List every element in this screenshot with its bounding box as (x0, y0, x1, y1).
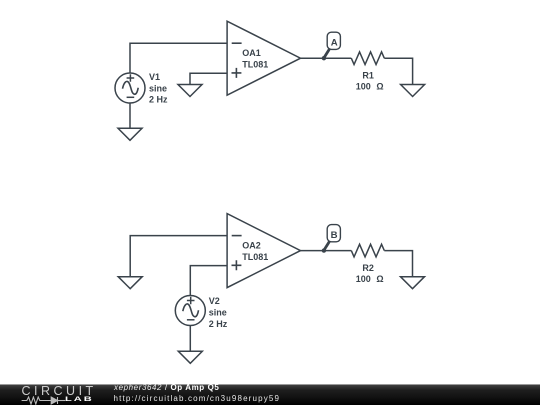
svg-text:2 Hz: 2 Hz (209, 319, 228, 329)
wire OA2 output to resistor R2 (301, 250, 352, 252)
op-amp OA1 TL081 (227, 21, 300, 95)
wire OA2 plus input to V2 top (190, 266, 227, 296)
op-amp OA1 body (227, 21, 300, 95)
ground right of R2 (401, 277, 425, 289)
footer text (114, 383, 219, 392)
svg-text:Ω: Ω (376, 274, 383, 284)
node A pointer (324, 49, 330, 58)
op-amp OA2 inverting pin mark (232, 235, 242, 237)
footer bar (0, 384, 540, 405)
V2 minus mark (187, 319, 195, 321)
op-amp OA2 TL081 (227, 214, 300, 288)
node B pointer (324, 241, 330, 250)
wire minus-input net top: V1 top to OA1 inverting input (130, 43, 227, 73)
wire V1 bottom to ground (129, 103, 131, 129)
svg-text:OA2: OA2 (242, 241, 261, 251)
wire R1 to right ground (384, 58, 412, 84)
svg-text:R1: R1 (362, 71, 374, 81)
voltage source V2 (175, 296, 205, 326)
wire minus-input net bottom: left of OA2 down to ground (130, 236, 227, 277)
svg-text:Ω: Ω (376, 82, 383, 92)
svg-text:V2: V2 (209, 296, 220, 306)
ground at OA2 inverting net (118, 277, 142, 289)
svg-text:R2: R2 (362, 263, 374, 273)
op-amp OA1 inverting pin mark (232, 42, 242, 44)
ground at OA1 plus input (178, 85, 202, 97)
V2 sine symbol (183, 304, 199, 317)
node A junction dot (322, 56, 326, 60)
node A flag (322, 32, 341, 60)
op-amp OA2 body (227, 214, 300, 288)
node A box (327, 32, 340, 49)
wire R2 to right ground (384, 251, 412, 277)
ground right of R1 (401, 85, 425, 97)
node B junction dot (322, 248, 326, 252)
svg-text:2 Hz: 2 Hz (149, 95, 168, 105)
resistor R1 (351, 52, 384, 65)
svg-text:TL081: TL081 (242, 252, 268, 262)
wire OA1 output to resistor R1 (301, 57, 352, 59)
svg-text:B: B (331, 230, 338, 241)
ground below V1 (118, 128, 142, 140)
svg-text:100: 100 (356, 82, 371, 92)
V1 body circle (115, 73, 145, 103)
wire OA1 plus input to ground stub (190, 73, 227, 84)
svg-text:sine: sine (149, 83, 167, 93)
svg-text:sine: sine (209, 308, 227, 318)
ground below V2 (178, 351, 202, 363)
op-amp OA2 non-inverting pin mark (232, 260, 242, 270)
svg-text:A: A (331, 37, 338, 48)
svg-text:V1: V1 (149, 72, 160, 82)
node B flag (322, 225, 341, 253)
node B box (327, 225, 340, 242)
V2 body circle (175, 296, 205, 326)
V2 plus mark (187, 297, 195, 305)
V1 minus mark (127, 96, 135, 98)
wire V2 bottom to ground (189, 326, 191, 352)
V1 sine symbol (123, 81, 139, 94)
op-amp OA1 non-inverting pin mark (232, 68, 242, 78)
svg-text:TL081: TL081 (242, 60, 268, 70)
CircuitLab logo (22, 384, 97, 398)
svg-text:100: 100 (356, 274, 371, 284)
voltage source V1 (115, 73, 145, 103)
svg-text:OA1: OA1 (242, 48, 261, 58)
resistor R2 (351, 244, 384, 257)
V1 plus mark (127, 74, 135, 82)
